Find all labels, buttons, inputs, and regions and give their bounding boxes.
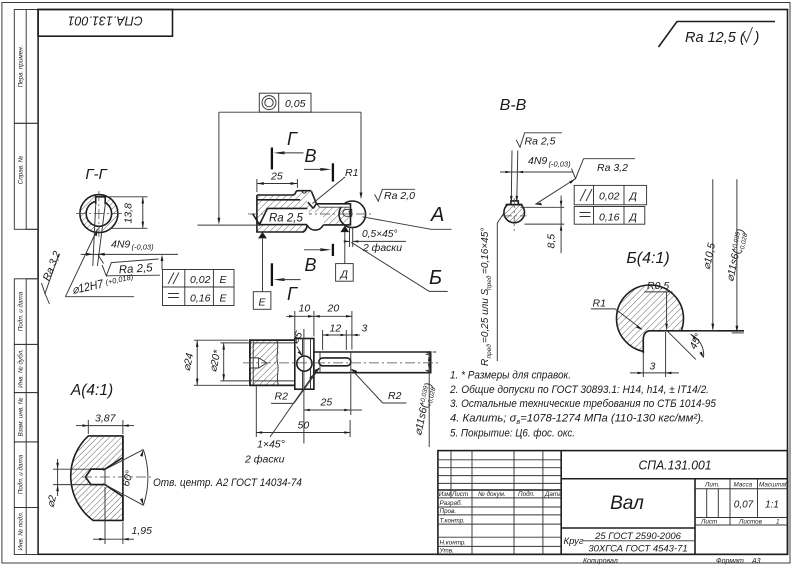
- svg-text:13,8: 13,8: [123, 203, 135, 224]
- centreline: [243, 362, 438, 364]
- svg-text:Взам. инв. №: Взам. инв. №: [18, 397, 25, 436]
- svg-text:R2: R2: [388, 390, 402, 402]
- svg-text:№ докум.: № докум.: [478, 490, 506, 498]
- svg-text:Изм: Изм: [439, 491, 451, 498]
- svg-text:Д: Д: [340, 269, 349, 281]
- svg-text:R2: R2: [275, 391, 289, 403]
- svg-text:Подп. и дата: Подп. и дата: [17, 291, 25, 331]
- svg-text:2 фаски: 2 фаски: [244, 454, 285, 466]
- axis centreline: [248, 213, 371, 215]
- dimension 20: [314, 303, 352, 350]
- centreline: [82, 476, 152, 478]
- svg-text:Подп.: Подп.: [518, 490, 535, 498]
- svg-text:20: 20: [327, 303, 340, 315]
- radial hole on flange: [297, 356, 312, 371]
- tolerance frame = 0,16 E: [163, 287, 235, 306]
- svg-text:Ra 3,2: Ra 3,2: [597, 162, 628, 174]
- svg-text:пред: пред: [485, 344, 493, 359]
- svg-text:25: 25: [320, 397, 333, 409]
- svg-text:4N9: 4N9: [111, 239, 130, 251]
- shaft cross-section circle with flat and key boss: [504, 205, 525, 223]
- svg-text:Е: Е: [259, 297, 267, 309]
- keyway channel lines: [257, 199, 300, 201]
- roughness Ra 3,2 (rotated, on bore leader): [41, 249, 64, 304]
- svg-text:Вал: Вал: [610, 493, 644, 514]
- svg-text:0,5×45°: 0,5×45°: [362, 228, 398, 240]
- view label А with leader: [363, 204, 452, 229]
- svg-text:Разраб.: Разраб.: [440, 499, 463, 507]
- svg-text:Утв.: Утв.: [439, 548, 454, 555]
- tolerance frame // 0,02 E: [163, 270, 235, 288]
- left margin column cells: [14, 10, 38, 555]
- svg-text:Лист: Лист: [700, 519, 717, 526]
- svg-text:1×45°: 1×45°: [257, 439, 285, 451]
- svg-text:Лист: Лист: [451, 491, 468, 498]
- svg-text:Копировал: Копировал: [583, 558, 618, 565]
- svg-text:1. * Размеры для справок.: 1. * Размеры для справок.: [450, 370, 571, 382]
- svg-text:Дата: Дата: [544, 491, 562, 498]
- svg-text:Листов: Листов: [738, 519, 763, 526]
- svg-text:Круг: Круг: [564, 536, 584, 547]
- boss top dip: [302, 191, 307, 193]
- centerlines: [76, 213, 122, 215]
- svg-text:Лит.: Лит.: [704, 481, 720, 488]
- centre hole white profile: [249, 358, 267, 368]
- svg-text:0,16: 0,16: [599, 212, 620, 224]
- svg-text:Г: Г: [287, 284, 298, 304]
- leader R2 (groove left): [271, 367, 320, 403]
- svg-text:Е: Е: [220, 274, 228, 286]
- svg-text:СПА.131.001: СПА.131.001: [68, 14, 143, 28]
- svg-text:Б: Б: [429, 267, 442, 289]
- dimension 8,5 (В-В): [521, 196, 565, 254]
- svg-text:Т.контр.: Т.контр.: [440, 517, 465, 524]
- svg-text:Перв. примен.: Перв. примен.: [18, 46, 25, 88]
- note Rпред=0,25 или Sпред=0,16x45° with leader: [480, 212, 505, 366]
- svg-text:Е: Е: [220, 293, 228, 305]
- svg-text:3: 3: [650, 361, 656, 373]
- dimension ⌀2: [45, 459, 90, 509]
- 45° chamfer line and arc: [667, 330, 696, 359]
- svg-text:3. Остальные технические треб: 3. Остальные технические требования по С…: [450, 398, 717, 410]
- svg-text:СПА.131.001: СПА.131.001: [639, 458, 712, 473]
- svg-text:Пров.: Пров.: [440, 508, 457, 515]
- svg-text:Ra 2,5: Ra 2,5: [269, 213, 303, 225]
- part outline: [257, 191, 351, 232]
- flange: [295, 339, 314, 390]
- dimension ⌀12H7(+0,018) with leader: [65, 229, 134, 297]
- material cell: [564, 531, 695, 555]
- svg-text:3: 3: [362, 323, 368, 335]
- dimension 3: [346, 323, 367, 337]
- svg-text:R0.5: R0.5: [647, 280, 669, 292]
- dimension ⌀24: [181, 340, 249, 385]
- svg-text:Ra 2,5: Ra 2,5: [525, 136, 556, 148]
- dimension 60°: [103, 450, 148, 506]
- svg-text:1: 1: [776, 519, 780, 526]
- slot in ball: [343, 209, 352, 216]
- ball end circle: [351, 203, 357, 225]
- shaft surface line: [666, 330, 744, 332]
- leader from frames to keyway dim line: [161, 255, 164, 270]
- section mark Г (bottom): [272, 263, 301, 304]
- svg-text:А: А: [430, 204, 444, 226]
- svg-text:R1: R1: [593, 298, 606, 310]
- svg-text:В: В: [305, 255, 317, 275]
- svg-text:В: В: [305, 146, 317, 166]
- dimension 3 (Б detail): [630, 332, 679, 377]
- svg-text:1,95: 1,95: [132, 525, 153, 537]
- roughness Ra 2,5 flag (Г-Г keyway): [98, 255, 160, 277]
- section mark В (top): [304, 146, 333, 182]
- roughness Ra 3,2 (В-В) with leader: [535, 159, 635, 206]
- dimension 13,8: [106, 197, 147, 229]
- chamfer strip on right block: [317, 204, 350, 207]
- left margin labels: [17, 46, 25, 551]
- svg-text:0,05: 0,05: [285, 98, 306, 110]
- svg-text:Масса: Масса: [734, 481, 753, 488]
- centrelines: [502, 215, 527, 217]
- svg-text:R: R: [480, 359, 491, 366]
- svg-text:Инв. № дубл.: Инв. № дубл.: [17, 349, 25, 388]
- svg-text:Д: Д: [629, 191, 638, 203]
- chamfer note 1x45° / 2 фаски: [244, 374, 315, 466]
- svg-text:0,02: 0,02: [599, 191, 620, 203]
- cylinder outline and chamfer lines: [250, 340, 295, 385]
- tolerance frame // 0,02 Д: [574, 185, 646, 204]
- roughness flag Ra 2,5 (main view): [253, 208, 310, 224]
- dimension 4N9(-0,03) keyway width: [81, 205, 178, 266]
- roughness Ra 2,0: [375, 189, 415, 202]
- circular runout tolerance frame 0,05: [218, 93, 363, 224]
- svg-text:В-В: В-В: [500, 97, 527, 114]
- dimension 1,95: [93, 487, 152, 544]
- svg-text:30ХГСА ГОСТ 4543-71: 30ХГСА ГОСТ 4543-71: [588, 544, 687, 555]
- svg-text:5. Покрытие: Ц6. фос. окс.: 5. Покрытие: Ц6. фос. окс.: [450, 428, 575, 440]
- V-notch groove: [307, 191, 317, 210]
- shaft with relief groove: [314, 352, 431, 373]
- svg-text:0,02: 0,02: [190, 274, 211, 286]
- svg-text:50: 50: [298, 420, 310, 432]
- dimension 3,87: [76, 413, 134, 435]
- surface extension line (⌀11s6 left): [198, 224, 260, 226]
- svg-text:(-0,03): (-0,03): [132, 243, 155, 252]
- dimension 4N9(-0,03) (В-В): [500, 151, 573, 203]
- centre hole profile blob: [71, 436, 123, 521]
- general roughness symbol Ra 12,5: [659, 22, 776, 48]
- dimension 10: [286, 303, 352, 338]
- svg-text:10: 10: [299, 303, 311, 315]
- svg-text:=0,16×45°: =0,16×45°: [480, 228, 491, 274]
- svg-text:8,5: 8,5: [546, 234, 558, 249]
- svg-text:25: 25: [270, 171, 283, 183]
- chamfer dimension 0,5x45° / 2 фаски: [344, 227, 406, 254]
- svg-text:2. Общие допуски по ГОСТ 3089: 2. Общие допуски по ГОСТ 30893.1: Н14, h…: [449, 384, 709, 396]
- svg-text:R1: R1: [345, 167, 358, 179]
- svg-text:Формат: Формат: [716, 558, 744, 565]
- title block grid: [438, 451, 788, 555]
- svg-text:4. Калить; σв=1078-1274 МПа (: 4. Калить; σв=1078-1274 МПа (110-130 кгс…: [450, 412, 704, 426]
- svg-text:): ): [753, 30, 760, 46]
- right end chamfers: [426, 353, 431, 355]
- dimension arrows ⌀11s6 at shaft right end: [428, 351, 436, 447]
- neck relief white circle: [306, 212, 324, 230]
- leader ⌀5 (radial hole): [289, 329, 306, 356]
- svg-text:4N9: 4N9: [528, 155, 547, 167]
- svg-text:Ra 12,5 (: Ra 12,5 (: [685, 30, 747, 46]
- svg-text:Инв. № подл.: Инв. № подл.: [17, 511, 25, 550]
- svg-text:Г: Г: [287, 129, 298, 149]
- section mark Г (top): [272, 129, 304, 169]
- svg-text:12: 12: [330, 323, 342, 335]
- svg-text:Г-Г: Г-Г: [85, 166, 108, 183]
- keyway slot in bore: [96, 197, 106, 204]
- svg-text:Б(4:1): Б(4:1): [626, 250, 669, 267]
- dimension 25 (bottom view): [304, 374, 362, 415]
- datum Д (flag on ball bottom): [336, 226, 354, 282]
- tolerance frame = 0,16 Д: [574, 207, 645, 225]
- leader R1: [313, 167, 359, 204]
- view label Б with leader: [351, 242, 447, 291]
- svg-text:А(4:1): А(4:1): [70, 382, 113, 399]
- svg-text:0,07: 0,07: [734, 500, 754, 511]
- svg-text:1:1: 1:1: [765, 500, 779, 511]
- dimension 50: [256, 387, 350, 438]
- dimension ⌀20*: [207, 343, 252, 381]
- leader R0.5: [644, 280, 672, 330]
- svg-text:Отв. центр. А2 ГОСТ 14034-74: Отв. центр. А2 ГОСТ 14034-74: [153, 477, 302, 489]
- svg-text:Н.контр.: Н.контр.: [440, 540, 467, 547]
- svg-text:3,87: 3,87: [95, 413, 117, 425]
- hole axis vertical: [303, 329, 305, 444]
- dimension ⌀10,5 (vertical): [690, 179, 718, 331]
- dimension ⌀11s6(+0,039/+0,028) (vertical): [724, 179, 750, 332]
- svg-text:пред: пред: [485, 275, 493, 290]
- top-left stamp box: [38, 10, 172, 37]
- svg-text:Ra 2,0: Ra 2,0: [384, 190, 415, 202]
- svg-text:А3: А3: [751, 558, 761, 565]
- datum Е (flag on left block bottom): [253, 232, 271, 309]
- section mark В (bottom): [304, 244, 333, 275]
- svg-text:0,16: 0,16: [190, 293, 211, 305]
- svg-text:(-0,03): (-0,03): [549, 160, 572, 169]
- shaft left-end section: hatched body: [198, 191, 372, 233]
- groove profile blob: [617, 285, 684, 352]
- roughness Ra 2,5 (В-В): [516, 133, 562, 148]
- svg-text:Подп. и дата: Подп. и дата: [17, 454, 25, 494]
- svg-text:25 ГОСТ 2590-2006: 25 ГОСТ 2590-2006: [594, 531, 682, 542]
- big cylinder ⌀24 with local section of centre hole: [250, 340, 295, 385]
- dimension 12: [323, 323, 347, 351]
- dimension 25 (keyway length): [257, 171, 298, 193]
- svg-text:Справ. №: Справ. №: [18, 156, 25, 185]
- shaft section outer circle with bore, hatched annulus: [76, 191, 122, 237]
- leader R1: [591, 298, 643, 331]
- svg-text:Д: Д: [629, 212, 638, 224]
- svg-text:2 фаски: 2 фаски: [362, 242, 402, 254]
- leader R2 (groove right) + ⌀11s6: [351, 369, 438, 438]
- title block texts: [439, 480, 789, 554]
- svg-text:=0,25 или S: =0,25 или S: [480, 288, 491, 343]
- svg-text:Масштаб: Масштаб: [759, 480, 789, 488]
